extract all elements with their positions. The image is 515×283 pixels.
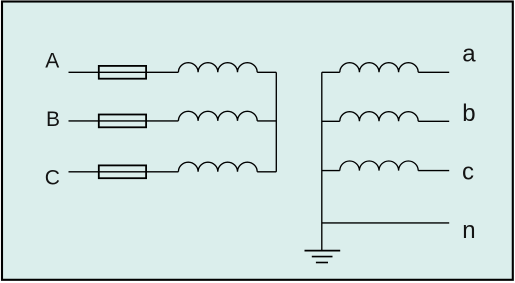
wire coil b to terminal b (418, 120, 449, 122)
wire coil a to terminal a (418, 71, 449, 73)
wire phase B input (69, 120, 179, 122)
wire secondary neutral bus (321, 72, 323, 250)
wire B coil to neutral bus (257, 120, 276, 122)
svg-text:b: b (462, 100, 475, 127)
wire secondary bus to coil c (322, 170, 340, 172)
inductor L4 (phase a secondary coil) (340, 63, 418, 73)
svg-text:n: n (462, 217, 475, 244)
svg-text:B: B (46, 108, 60, 131)
wire neutral n (322, 222, 449, 224)
wire C coil to neutral bus (257, 171, 276, 173)
wire phase A input (69, 71, 179, 73)
svg-text:C: C (45, 166, 60, 189)
svg-text:a: a (462, 41, 476, 68)
wire coil c to terminal c (418, 170, 449, 172)
fuse F3 (phase C) (99, 165, 146, 178)
wire primary neutral bus (275, 72, 277, 172)
svg-text:c: c (462, 159, 474, 186)
fuse F2 (phase B) (99, 115, 146, 128)
wire secondary bus to coil b (322, 120, 340, 122)
fuse F1 (phase A) (99, 66, 146, 79)
wire phase C input (69, 171, 179, 173)
wire secondary bus to coil a (322, 71, 340, 73)
ground (305, 250, 341, 252)
inductor L1 (phase A primary coil) (178, 63, 257, 73)
svg-text:A: A (45, 49, 59, 72)
inductor L6 (phase c secondary coil) (340, 161, 418, 171)
inductor L2 (phase B primary coil) (178, 111, 257, 121)
inductor L3 (phase C primary coil) (178, 162, 257, 172)
inductor L5 (phase b secondary coil) (340, 112, 418, 122)
wire A coil to neutral bus (257, 71, 276, 73)
